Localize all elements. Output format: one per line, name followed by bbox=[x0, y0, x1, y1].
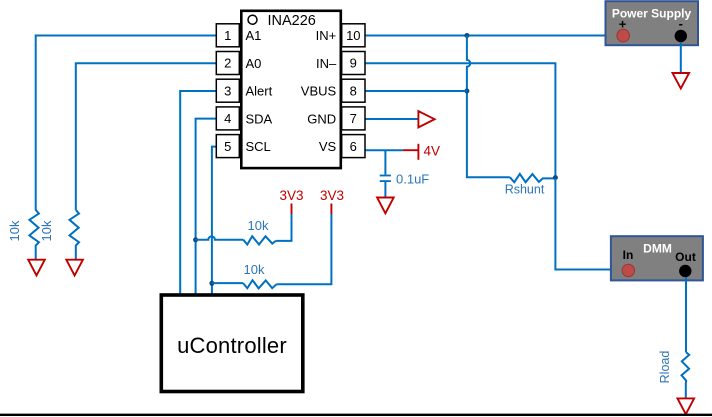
wire pin6 (VS) bbox=[365, 149, 403, 151]
pin 10 box bbox=[342, 24, 365, 47]
net stub 3V3 (red) bbox=[291, 204, 293, 215]
bottom border line bbox=[0, 414, 712, 416]
svg-text:In: In bbox=[623, 248, 634, 262]
ground G3 bbox=[377, 198, 394, 214]
DMM Out terminal (black) bbox=[679, 265, 691, 277]
svg-text:Out: Out bbox=[675, 250, 696, 264]
svg-text:GND: GND bbox=[307, 111, 336, 126]
wire DMM Out to Rload bbox=[685, 277, 687, 352]
svg-text:8: 8 bbox=[350, 83, 357, 98]
svg-text:VBUS: VBUS bbox=[301, 84, 337, 99]
junction node Rshunt right / DMM In bbox=[553, 175, 558, 180]
resistor R2 10k (vertical zigzag) bbox=[70, 210, 80, 260]
pin 2 box bbox=[216, 52, 239, 75]
net stub 3V3 (red) bbox=[330, 204, 332, 215]
svg-text:SCL: SCL bbox=[246, 139, 271, 154]
svg-text:SDA: SDA bbox=[246, 111, 273, 126]
svg-text:10k: 10k bbox=[39, 220, 54, 241]
svg-text:5: 5 bbox=[224, 139, 231, 154]
svg-text:3: 3 bbox=[224, 83, 231, 98]
svg-text:IN–: IN– bbox=[316, 56, 337, 71]
ground G5 bbox=[678, 398, 695, 414]
pin 5 box bbox=[216, 135, 239, 158]
wire pin10 (IN+) to Power Supply + bbox=[365, 35, 617, 37]
net terminal bar 4V bbox=[417, 144, 419, 160]
junction node IN+ / VBUS / Rshunt bbox=[464, 33, 469, 38]
IC U1 pin-1 indicator circle bbox=[248, 15, 257, 24]
resistor R5 Rshunt (horizontal zigzag) bbox=[510, 174, 556, 182]
svg-text:3V3: 3V3 bbox=[279, 188, 303, 203]
wire Power Supply - to ground bbox=[680, 42, 682, 73]
pin 9 box bbox=[342, 52, 365, 75]
pin 4 box bbox=[216, 107, 239, 130]
ground G2 bbox=[66, 260, 83, 276]
wire pin9 (IN-) to Rshunt right bbox=[365, 63, 555, 178]
wire capacitor to ground bbox=[384, 182, 386, 198]
wire pin8 (VBUS) to junction bbox=[365, 90, 467, 92]
svg-text:uController: uController bbox=[177, 333, 287, 358]
resistor R6 Rload (vertical zigzag) bbox=[682, 352, 690, 398]
svg-text:Rload: Rload bbox=[658, 351, 672, 384]
IC U1 INA226 body bbox=[241, 11, 340, 168]
svg-text:0.1uF: 0.1uF bbox=[396, 172, 429, 187]
pin 8 box bbox=[342, 79, 365, 102]
wire R4 to 3V3 bbox=[276, 214, 331, 284]
ground symbol GND pin7 (right-pointing open triangle) bbox=[418, 111, 434, 127]
pin 6 box bbox=[342, 135, 365, 158]
wire pin3 (Alert) to uController bbox=[180, 91, 216, 295]
svg-text:9: 9 bbox=[350, 56, 357, 71]
wire SCL junction to R4 bbox=[212, 282, 243, 284]
junction node SDA pullup bbox=[193, 237, 198, 242]
svg-text:A1: A1 bbox=[246, 28, 262, 43]
wire VS to capacitor C1 bbox=[384, 150, 386, 174]
Power Supply + terminal (red) bbox=[617, 29, 630, 42]
svg-text:3V3: 3V3 bbox=[320, 188, 344, 203]
ground G1 bbox=[28, 260, 45, 276]
svg-text:-: - bbox=[679, 16, 683, 31]
svg-text:10: 10 bbox=[346, 28, 360, 43]
Power Supply - terminal (black) bbox=[675, 30, 687, 42]
svg-text:6: 6 bbox=[350, 139, 357, 154]
svg-text:10k: 10k bbox=[244, 262, 265, 277]
wire pin1 (A1) to resistor R1 bbox=[36, 36, 217, 211]
svg-text:Rshunt: Rshunt bbox=[505, 183, 545, 197]
svg-text:2: 2 bbox=[224, 56, 231, 71]
svg-text:1: 1 bbox=[224, 28, 231, 43]
svg-text:10k: 10k bbox=[248, 218, 269, 233]
svg-text:A0: A0 bbox=[246, 56, 262, 71]
net stub 4V (red) bbox=[403, 149, 418, 151]
svg-text:DMM: DMM bbox=[643, 242, 672, 256]
svg-text:10k: 10k bbox=[7, 220, 22, 241]
pin 3 box bbox=[216, 79, 239, 102]
wire pin5 (SCL) to uController bbox=[212, 147, 216, 295]
wire pin2 (A0) to resistor R2 bbox=[76, 63, 217, 210]
uController box bbox=[161, 295, 302, 392]
pin 7 box bbox=[342, 107, 365, 130]
svg-text:Alert: Alert bbox=[246, 84, 273, 99]
wire R3 to 3V3 bbox=[276, 214, 292, 241]
capacitor C1 0.1uF plates bbox=[380, 175, 391, 177]
svg-text:VS: VS bbox=[319, 139, 337, 154]
resistor R4 10k (horizontal zigzag) bbox=[243, 280, 276, 288]
DMM box bbox=[611, 236, 703, 280]
wire SDA junction to R3 with hop over SCL wire bbox=[196, 236, 244, 239]
wire pin7 (GND) stub bbox=[365, 118, 418, 120]
resistor R1 10k (vertical zigzag) bbox=[29, 210, 39, 260]
wire Rshunt right to DMM In bbox=[555, 178, 622, 269]
svg-text:4: 4 bbox=[224, 111, 231, 126]
DMM In terminal (red) bbox=[622, 264, 634, 276]
svg-text:INA226: INA226 bbox=[268, 13, 316, 29]
svg-text:IN+: IN+ bbox=[316, 28, 337, 43]
wire pin4 (SDA) to uController bbox=[196, 119, 217, 295]
wire IN+ down to Rshunt left, hop over IN- wire bbox=[467, 36, 510, 178]
resistor R3 10k (horizontal zigzag) bbox=[243, 236, 275, 244]
Power Supply box bbox=[606, 1, 699, 45]
junction node VBUS bbox=[464, 89, 469, 94]
svg-text:4V: 4V bbox=[424, 144, 441, 159]
junction node SCL pullup bbox=[209, 281, 214, 286]
pin 1 box bbox=[216, 24, 239, 47]
ground G4 bbox=[673, 73, 690, 89]
svg-text:7: 7 bbox=[350, 111, 357, 126]
